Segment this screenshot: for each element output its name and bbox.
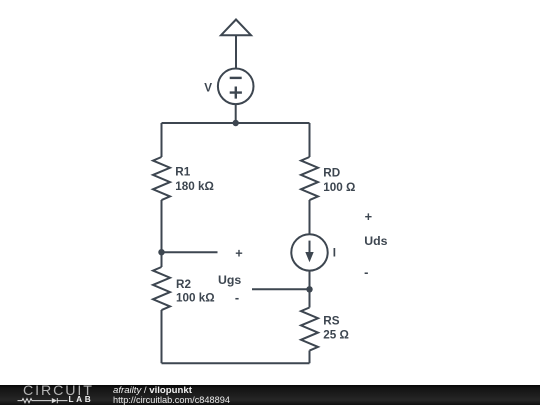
wire top rail to R1 <box>161 123 163 157</box>
svg-text:100 kΩ: 100 kΩ <box>176 292 215 305</box>
wire RD to current source <box>309 200 311 234</box>
wire current source to RS <box>309 271 311 308</box>
svg-text:-: - <box>235 290 239 305</box>
bottom rail wire <box>162 362 310 364</box>
logo diode triangle <box>52 398 57 403</box>
svg-text:+: + <box>235 245 242 260</box>
wire R1 to node gate <box>161 200 163 267</box>
junction node source <box>306 286 312 292</box>
junction node gate <box>158 249 164 255</box>
wire gate stub (Ugs +) <box>162 251 218 253</box>
VCC triangle symbol <box>221 20 251 36</box>
logo line art: resistor and diode <box>0 396 70 405</box>
wire V source to top rail <box>235 104 237 123</box>
voltage source plus sign <box>230 87 242 99</box>
credit line <box>113 386 192 395</box>
svg-text:-: - <box>364 264 368 279</box>
svg-text:V: V <box>204 82 212 95</box>
svg-text:Ugs: Ugs <box>218 273 241 287</box>
footer bar <box>0 385 540 405</box>
resistor R2 zigzag <box>153 267 170 310</box>
wire triangle to V source <box>235 35 237 68</box>
svg-text:R2: R2 <box>176 278 191 291</box>
wire top rail to RD <box>309 123 311 157</box>
resistor R1 zigzag <box>153 157 170 200</box>
svg-text:180 kΩ: 180 kΩ <box>175 180 214 193</box>
svg-text:100 Ω: 100 Ω <box>323 181 355 194</box>
wire RS to bottom rail <box>309 351 311 364</box>
wire R2 to bottom rail <box>161 310 163 363</box>
current source arrowhead <box>305 252 313 262</box>
svg-text:25 Ω: 25 Ω <box>323 329 349 342</box>
logo diode bar and wire <box>57 398 67 403</box>
top rail wire <box>162 122 310 124</box>
resistor RS zigzag <box>301 308 318 351</box>
url line <box>113 396 230 405</box>
voltage source minus sign <box>230 77 242 79</box>
svg-text:RS: RS <box>323 314 339 327</box>
CircuitLab logo text <box>23 384 94 398</box>
svg-text:RD: RD <box>323 167 340 180</box>
junction node top rail <box>233 120 239 126</box>
logo LAB <box>69 396 94 403</box>
svg-text:I: I <box>333 247 336 260</box>
svg-text:Uds: Uds <box>364 234 387 248</box>
current source arrow shaft <box>309 241 311 256</box>
current source I circle <box>291 234 327 270</box>
svg-text:R1: R1 <box>175 165 190 178</box>
resistor RD zigzag <box>301 157 318 200</box>
logo resistor zigzag <box>18 399 52 403</box>
wire source stub (Ugs -) <box>252 288 310 290</box>
svg-text:+: + <box>365 209 372 224</box>
voltage source V circle <box>218 69 254 105</box>
